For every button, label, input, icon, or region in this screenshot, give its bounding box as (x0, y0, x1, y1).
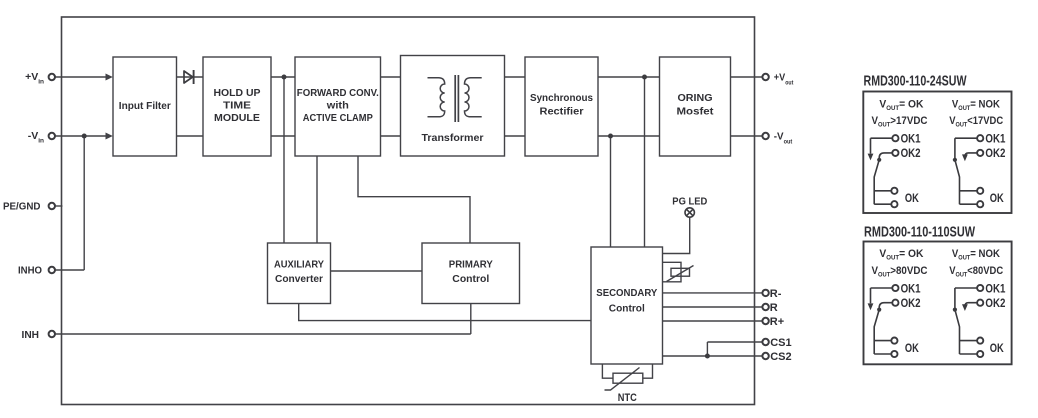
svg-text:INH: INH (22, 329, 40, 341)
svg-text:OK2: OK2 (985, 146, 1005, 160)
svg-text:OK: OK (990, 191, 1004, 205)
svg-text:OK2: OK2 (901, 146, 921, 160)
svg-text:HOLD UP: HOLD UP (214, 87, 261, 99)
svg-text:+Vout: +Vout (774, 72, 794, 87)
svg-text:VOUT= NOK: VOUT= NOK (952, 248, 1000, 262)
svg-text:VOUT<17VDC: VOUT<17VDC (949, 115, 1003, 129)
svg-text:PRIMARY: PRIMARY (449, 258, 493, 270)
svg-text:Mosfet: Mosfet (677, 106, 715, 118)
svg-text:MODULE: MODULE (214, 112, 260, 124)
svg-text:VOUT>80VDC: VOUT>80VDC (872, 265, 928, 279)
svg-text:FORWARD CONV.: FORWARD CONV. (297, 87, 379, 99)
svg-text:-Vout: -Vout (774, 131, 793, 146)
svg-text:with: with (326, 100, 349, 112)
svg-text:SECONDARY: SECONDARY (596, 287, 657, 299)
svg-text:R: R (770, 302, 778, 314)
svg-text:Transformer: Transformer (422, 132, 484, 144)
svg-text:OK1: OK1 (985, 281, 1005, 295)
svg-text:VOUT<80VDC: VOUT<80VDC (949, 265, 1003, 279)
svg-text:OK1: OK1 (985, 132, 1005, 146)
svg-text:ORING: ORING (678, 92, 713, 104)
svg-text:RMD300-110-24SUW: RMD300-110-24SUW (864, 73, 968, 90)
svg-text:TIME: TIME (223, 100, 251, 112)
svg-text:OK2: OK2 (985, 296, 1005, 310)
svg-text:CS2: CS2 (770, 351, 791, 363)
svg-text:VOUT= OK: VOUT= OK (879, 248, 923, 262)
svg-text:R+: R+ (770, 316, 784, 328)
svg-text:OK: OK (990, 341, 1004, 355)
svg-text:Input Filter: Input Filter (119, 100, 171, 112)
svg-text:-Vin: -Vin (28, 130, 44, 145)
svg-text:Control: Control (609, 303, 645, 315)
svg-text:PG LED: PG LED (672, 196, 707, 207)
svg-text:R-: R- (770, 288, 782, 300)
svg-text:OK2: OK2 (901, 296, 921, 310)
svg-text:Converter: Converter (275, 273, 323, 285)
svg-text:RMD300-110-110SUW: RMD300-110-110SUW (864, 224, 976, 241)
svg-text:VOUT= OK: VOUT= OK (879, 98, 923, 112)
svg-text:ACTIVE CLAMP: ACTIVE CLAMP (303, 112, 373, 124)
svg-text:Synchronous: Synchronous (530, 92, 593, 104)
svg-text:NTC: NTC (618, 392, 637, 404)
svg-text:OK1: OK1 (901, 281, 921, 295)
svg-text:VOUT= NOK: VOUT= NOK (952, 98, 1000, 112)
svg-text:Control: Control (452, 273, 489, 285)
svg-text:INHO: INHO (18, 265, 42, 277)
svg-text:OK1: OK1 (901, 132, 921, 146)
svg-text:OK: OK (905, 341, 919, 355)
svg-text:AUXILIARY: AUXILIARY (274, 258, 324, 270)
svg-text:+Vin: +Vin (25, 71, 44, 86)
svg-text:OK: OK (905, 191, 919, 205)
svg-text:VOUT>17VDC: VOUT>17VDC (872, 115, 928, 129)
svg-text:Rectifier: Rectifier (540, 106, 584, 118)
svg-text:PE/GND: PE/GND (3, 200, 41, 212)
svg-text:CS1: CS1 (770, 337, 791, 349)
